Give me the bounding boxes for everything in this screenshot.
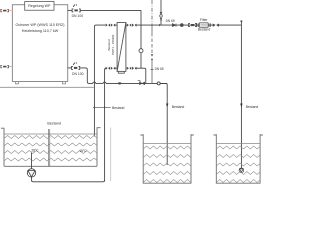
wire HX top-left header and riser A to tank xyxy=(94,25,105,136)
wire HX top-right stub xyxy=(125,24,128,26)
svg-text:Bestand: Bestand xyxy=(198,28,211,32)
left tank bottom xyxy=(4,165,97,167)
circulation pump circle xyxy=(139,49,143,53)
svg-text:Filter: Filter xyxy=(200,18,208,22)
svg-text:Bestand: Bestand xyxy=(107,39,111,50)
heat pump feet xyxy=(16,82,66,84)
valve pair HX top-left xyxy=(106,24,116,27)
filter with flanges xyxy=(197,23,211,28)
svg-text:DN 65: DN 65 xyxy=(155,67,164,71)
valve pair HX bottom-right xyxy=(127,67,137,70)
compensator top outlet xyxy=(68,9,81,12)
wire into HX bottom-left xyxy=(115,67,117,69)
wire supply pipe top xyxy=(80,9,141,11)
control box Regelung WP xyxy=(25,2,54,11)
compensator on filter line xyxy=(189,23,197,26)
wire return pipe segment xyxy=(96,82,104,84)
vent mark bottom outlet xyxy=(73,63,77,65)
right tank walls xyxy=(214,135,263,183)
wire header to filter line xyxy=(137,24,242,26)
junction dot below HX xyxy=(118,82,122,84)
wire right riser down to right tank xyxy=(240,25,242,168)
middle tank water level xyxy=(143,143,191,145)
valve after filter xyxy=(213,24,219,27)
connector source supply (orange) xyxy=(1,9,13,11)
vent mark top outlet xyxy=(73,4,77,6)
floor line under heat pump xyxy=(0,86,94,88)
svg-text:15°C: 15°C xyxy=(79,149,87,153)
middle tank waves xyxy=(143,146,191,183)
make-up gauge circle xyxy=(160,15,163,18)
wire DN65 drop line xyxy=(151,25,153,83)
svg-text:PWT1 - 150kW: PWT1 - 150kW xyxy=(111,35,115,56)
wire supply riser down to header xyxy=(140,10,142,25)
right tank water level xyxy=(216,143,260,145)
make-up small valve xyxy=(160,18,162,20)
svg-text:Bestand: Bestand xyxy=(172,105,185,109)
wire return pipe hop over pump riser xyxy=(103,82,106,83)
pump on filter line (filled) xyxy=(180,23,184,27)
foot valve in right tank xyxy=(239,168,244,173)
wire HX circulation pump line xyxy=(140,25,142,68)
wire return pipe long segment xyxy=(106,82,167,84)
wire HX bottom-right down to return xyxy=(137,68,146,83)
wire pump riser up to HX bottom-left xyxy=(105,68,107,181)
flow arrow middle riser xyxy=(166,104,168,108)
right tank waves xyxy=(216,146,260,183)
left tank water level xyxy=(4,133,97,135)
heat exchanger base xyxy=(118,71,124,73)
boundary dash-dot line xyxy=(151,0,153,25)
wire pump discharge to riser xyxy=(32,177,105,182)
svg-text:DN 65: DN 65 xyxy=(166,19,175,23)
heat exchanger PWT xyxy=(117,23,126,72)
svg-text:28°C: 28°C xyxy=(31,149,39,153)
wire return elbow down to middle tank riser xyxy=(160,83,167,165)
middle tank walls xyxy=(140,135,193,183)
wire into HX top-left xyxy=(115,24,117,26)
wire suction dip pipe xyxy=(31,153,33,169)
wire return pipe hop over riser A xyxy=(93,82,96,83)
svg-text:Ochsner WP (WWS 110 ERZ): Ochsner WP (WWS 110 ERZ) xyxy=(15,23,64,27)
tick make-up junction xyxy=(158,24,160,26)
compensator bottom outlet xyxy=(68,66,80,69)
left tank divider xyxy=(48,129,50,166)
valve pair HX bottom-left xyxy=(106,67,116,70)
left tank waves xyxy=(4,136,97,162)
vent stub right riser xyxy=(240,20,242,25)
svg-text:Heizleistung 110,7 kW: Heizleistung 110,7 kW xyxy=(22,29,59,33)
connector source return (dark) xyxy=(1,65,13,67)
svg-text:Bestand: Bestand xyxy=(246,105,259,109)
heat pump WP unit box xyxy=(12,5,67,82)
left tank right wall with lip xyxy=(97,128,101,167)
label leader Bestand risers left xyxy=(93,106,111,109)
svg-text:DN 100: DN 100 xyxy=(72,72,84,76)
wire WP return pipe to elbow xyxy=(80,68,93,84)
ghost faint pipe xyxy=(110,128,112,182)
svg-text:Bestand: Bestand xyxy=(47,122,61,126)
check valve on filter line xyxy=(172,24,176,27)
left tank left wall with lip xyxy=(1,128,4,166)
make-up water line xyxy=(160,0,162,25)
well pump xyxy=(27,169,35,177)
valve pair HX top-right xyxy=(127,24,137,27)
flow arrow right riser xyxy=(240,104,242,108)
svg-text:DN 100: DN 100 xyxy=(72,14,84,18)
tick on DN65 line xyxy=(151,68,154,70)
wire HX bottom-right stub xyxy=(125,67,128,69)
svg-text:Regelung WP: Regelung WP xyxy=(28,4,51,8)
pump on return pipe xyxy=(157,82,160,85)
drain valve with handle on return pipe xyxy=(138,81,145,85)
svg-text:Bestand: Bestand xyxy=(112,106,125,110)
valve on DN65 line xyxy=(151,54,153,60)
make-up check arrow xyxy=(160,12,163,14)
